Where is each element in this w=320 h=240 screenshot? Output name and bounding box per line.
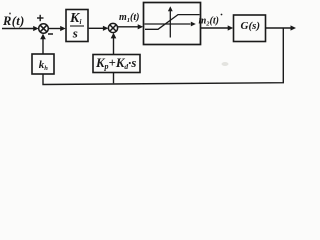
svg-text:s: s <box>72 26 78 41</box>
svg-text:G(s): G(s) <box>241 20 261 32</box>
svg-text:m2(t): m2(t) <box>199 16 219 28</box>
svg-text:R(t): R(t) <box>2 14 25 28</box>
svg-text:i: i <box>80 18 82 26</box>
svg-text:Kp+Kd·s: Kp+Kd·s <box>95 56 136 71</box>
svg-text:m1(t): m1(t) <box>119 12 139 24</box>
